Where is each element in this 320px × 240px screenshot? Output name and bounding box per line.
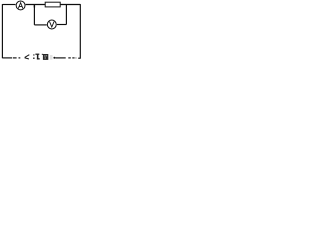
wire voltmeter right horizontal bbox=[57, 24, 67, 26]
wire bottom dash d bbox=[72, 57, 74, 59]
node T-junction stub bbox=[33, 5, 35, 8]
wire bottom solid right of dot bbox=[55, 57, 65, 59]
wire bottom dash c bbox=[68, 57, 71, 59]
wire bottom dash e (faint) bbox=[75, 57, 78, 59]
wire voltmeter right vertical bbox=[65, 5, 67, 25]
battery label char 1 (dots radical) bbox=[33, 54, 40, 60]
wire bottom-right corner stub bbox=[78, 57, 80, 59]
ammeter label A bbox=[19, 3, 23, 8]
battery label ghost mark (faint char 3) bbox=[50, 55, 53, 60]
switch S1 lever upper stroke bbox=[25, 55, 30, 58]
wire ammeter to resistor bbox=[26, 4, 46, 6]
wire top-left segment bbox=[2, 4, 15, 6]
wire bottom-left segment bbox=[2, 57, 12, 59]
wire voltmeter left branch horizontal bbox=[34, 24, 46, 26]
voltmeter V1 circle bbox=[47, 20, 56, 29]
voltmeter label V bbox=[50, 22, 54, 27]
node terminal dot bbox=[53, 57, 55, 59]
resistor R1 bbox=[45, 2, 60, 7]
wire bottom dash a bbox=[13, 57, 17, 59]
wire bottom dash b bbox=[19, 57, 21, 59]
wire voltmeter left branch vertical bbox=[33, 5, 35, 25]
wire resistor to top-right corner bbox=[60, 4, 80, 6]
battery label char 2 (dense block) bbox=[42, 54, 49, 60]
ammeter A1 circle bbox=[16, 1, 25, 10]
wire right vertical bbox=[79, 4, 81, 59]
wire left vertical bbox=[1, 4, 3, 58]
switch S1 lever lower stroke bbox=[25, 58, 29, 59]
